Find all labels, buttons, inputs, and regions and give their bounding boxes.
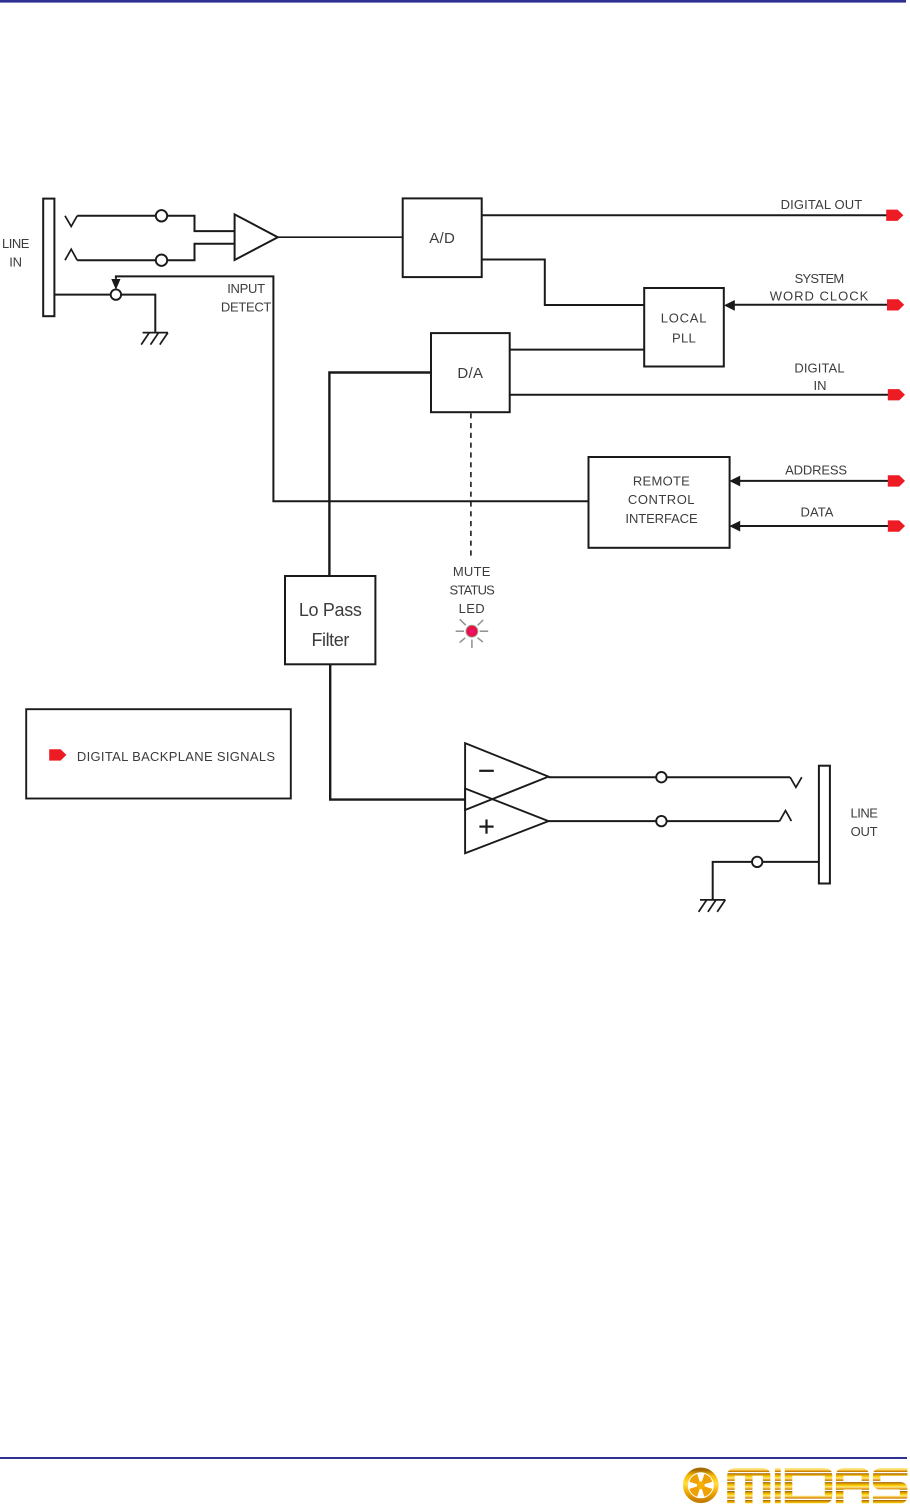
MIDAS wordmark	[727, 1468, 907, 1503]
legend red connector	[49, 749, 66, 760]
letter S	[873, 1468, 908, 1503]
letter D	[785, 1468, 833, 1503]
minus sign	[479, 770, 494, 772]
backplane connector ADDRESS	[888, 475, 905, 486]
svg-text:PLL: PLL	[672, 330, 696, 345]
wire: ring to amp (lower input)	[77, 244, 234, 260]
legend box	[26, 709, 291, 798]
wire: ADDRESS into interface	[737, 480, 888, 482]
svg-text:STATUS: STATUS	[450, 582, 496, 597]
wire: D/A to Lo Pass Filter	[329, 373, 431, 577]
A/D block	[403, 198, 482, 277]
wire: input detect run (sleeve to remote control interface)	[116, 276, 589, 501]
top navy header bar	[0, 0, 906, 3]
ground symbol (line in)	[141, 333, 168, 345]
wire: A/D to LOCAL PLL	[482, 260, 645, 306]
wire: minus amp output to line out tip	[549, 776, 791, 778]
arrowhead into LOCAL PLL	[724, 300, 735, 311]
dashed wire: D/A to mute LED	[470, 413, 472, 556]
D/A block	[431, 333, 510, 412]
svg-text:CONTROL: CONTROL	[628, 492, 695, 507]
svg-text:LED: LED	[459, 601, 485, 616]
wire: plus amp output to line out ring	[549, 820, 780, 822]
arrowhead input detect (down)	[111, 279, 120, 290]
jack tip contact (top chevron)	[65, 216, 77, 227]
svg-text:IN: IN	[9, 254, 22, 269]
wire: D/A to LOCAL PLL	[510, 349, 645, 351]
output op-amp fills	[465, 743, 548, 810]
wire: line out sleeve to ground	[713, 862, 819, 900]
wordmark stripes	[726, 1473, 908, 1500]
LINE IN connector bar	[43, 199, 54, 317]
letter M	[727, 1468, 770, 1503]
svg-text:Filter: Filter	[311, 630, 349, 650]
svg-text:WORD CLOCK: WORD CLOCK	[770, 289, 870, 304]
svg-text:LINE: LINE	[851, 806, 879, 821]
wire: line in sleeve to ground	[54, 295, 155, 333]
svg-text:A/D: A/D	[429, 230, 455, 247]
contact circle tip out	[656, 772, 666, 782]
backplane connector SYSTEM WORD CLOCK	[887, 299, 904, 310]
mute status LED rays	[456, 619, 489, 648]
LOCAL PLL block	[644, 288, 724, 367]
backplane connector DATA	[888, 520, 905, 531]
ground symbol (line out)	[699, 900, 726, 912]
svg-text:SYSTEM: SYSTEM	[795, 271, 844, 286]
svg-text:DIGITAL BACKPLANE SIGNALS: DIGITAL BACKPLANE SIGNALS	[77, 749, 275, 764]
wire: amp output to A/D	[278, 236, 403, 238]
backplane connector DIGITAL OUT	[886, 210, 903, 221]
jack ring contact (bottom chevron)	[65, 249, 77, 260]
footer rule	[0, 1457, 907, 1459]
MIDAS logo emblem	[685, 1470, 716, 1501]
svg-text:DIGITAL OUT: DIGITAL OUT	[781, 197, 863, 212]
svg-text:DIGITAL: DIGITAL	[794, 361, 844, 376]
arrowhead ADDRESS	[729, 476, 740, 487]
op-amp non-inverting (plus)	[465, 789, 548, 854]
wire: DATA into interface	[737, 525, 888, 527]
svg-text:LOCAL: LOCAL	[661, 310, 708, 325]
contact circle sleeve out	[752, 857, 762, 867]
input amplifier triangle	[235, 214, 278, 260]
backplane connector DIGITAL IN	[888, 389, 905, 400]
svg-text:INPUT: INPUT	[227, 281, 265, 296]
svg-text:IN: IN	[814, 378, 827, 393]
wire: word clock into LOCAL PLL	[732, 304, 888, 306]
op-amp inverting (minus)	[465, 743, 548, 810]
letter A	[836, 1468, 869, 1503]
svg-text:REMOTE: REMOTE	[633, 473, 690, 488]
svg-text:INTERFACE: INTERFACE	[625, 511, 698, 526]
contact circle on tip wire	[156, 210, 167, 221]
mute status LED	[466, 625, 478, 637]
wire: Lo Pass Filter to output amps	[330, 664, 465, 799]
contact circle on ring wire	[156, 255, 167, 266]
arrowhead DATA	[729, 521, 740, 532]
svg-text:OUT: OUT	[851, 824, 878, 839]
output jack tip chevron	[790, 777, 802, 787]
svg-text:DATA: DATA	[801, 505, 834, 520]
contact circle ring out	[656, 816, 666, 826]
svg-text:LINE: LINE	[2, 236, 30, 251]
svg-text:D/A: D/A	[457, 365, 483, 382]
svg-text:ADDRESS: ADDRESS	[785, 462, 847, 477]
output jack ring chevron	[780, 811, 792, 822]
contact circle on sleeve wire	[111, 289, 121, 299]
wire: tip to amp (upper input)	[77, 216, 234, 231]
svg-text:Lo Pass: Lo Pass	[299, 600, 362, 620]
REMOTE CONTROL INTERFACE block	[589, 457, 730, 548]
svg-text:MUTE: MUTE	[453, 564, 491, 579]
letter I	[775, 1468, 781, 1503]
Lo Pass Filter block	[285, 576, 375, 664]
wire: A/D to DIGITAL OUT connector	[482, 214, 887, 216]
svg-text:DETECT: DETECT	[221, 300, 272, 315]
LINE OUT connector bar	[819, 766, 830, 884]
wire: DIGITAL IN to D/A	[510, 394, 889, 396]
plus sign	[479, 825, 493, 827]
